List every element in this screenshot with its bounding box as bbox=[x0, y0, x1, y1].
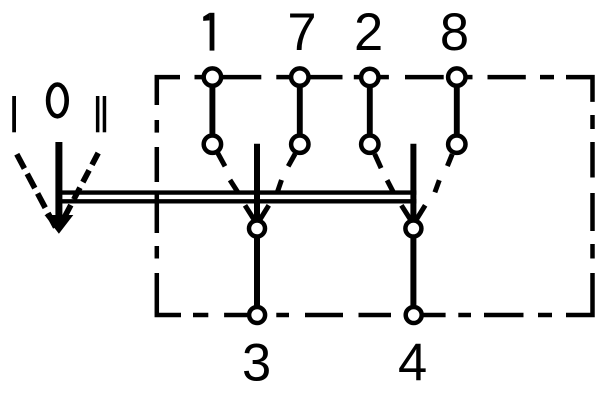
terminal 4 contact circle bbox=[406, 307, 422, 323]
terminal 1 wire bbox=[209, 79, 215, 143]
terminal 1 top contact circle bbox=[204, 68, 221, 85]
switch body outline, bottom edge (dash-dot) bbox=[157, 273, 552, 315]
position label I bbox=[12, 96, 16, 132]
terminal 8 wire bbox=[454, 79, 460, 143]
position label 0 bbox=[48, 85, 67, 117]
svg-text:7: 7 bbox=[287, 3, 316, 62]
lever shaft bbox=[55, 142, 62, 219]
actuator bar (double horizontal line) bbox=[62, 193, 417, 202]
svg-text:4: 4 bbox=[398, 333, 427, 392]
pole 4 pivot circle bbox=[405, 221, 421, 237]
terminal label 1 bbox=[203, 13, 214, 51]
pole 3 pivot circle bbox=[249, 221, 265, 237]
terminal 8 fixed contact circle bbox=[448, 136, 465, 153]
switch body outline, top edge (dash-dot) bbox=[157, 77, 593, 105]
switch body outline, right edge (dash-dot) bbox=[566, 115, 593, 315]
terminal 7 fixed contact circle bbox=[291, 136, 308, 153]
terminal 2 top contact circle bbox=[361, 69, 378, 86]
dashed contact line from terminal 8 to pole 4 bbox=[435, 154, 452, 192]
lever travel dashed line, position I bbox=[17, 154, 57, 229]
dashed contact line from terminal 2 to pole 4 bbox=[375, 154, 394, 192]
dashed contact line from terminal 7 to pole 3 bbox=[277, 154, 295, 192]
pole 4 contact fork bbox=[401, 205, 425, 219]
lever arrowhead bbox=[45, 215, 74, 234]
terminal 2 fixed contact circle bbox=[361, 136, 378, 153]
dashed contact line from terminal 1 to pole 3 bbox=[218, 153, 238, 192]
svg-text:2: 2 bbox=[354, 3, 383, 62]
terminal 8 top contact circle bbox=[448, 68, 465, 85]
pole 3 contact fork bbox=[245, 205, 269, 219]
switch body outline, left edge (dash-dot) bbox=[155, 120, 160, 259]
svg-text:8: 8 bbox=[440, 3, 469, 62]
terminal 2 wire bbox=[367, 79, 373, 143]
lever travel dashed line, position II bbox=[62, 153, 99, 223]
position label II bbox=[96, 96, 106, 132]
pole 4 wire bbox=[410, 144, 416, 315]
svg-text:3: 3 bbox=[242, 334, 271, 393]
terminal 3 contact circle bbox=[249, 307, 265, 323]
terminal 7 top contact circle bbox=[291, 68, 308, 85]
terminal 1 fixed contact circle bbox=[204, 136, 221, 153]
terminal 7 wire bbox=[297, 79, 303, 143]
pole 3 wire bbox=[254, 144, 260, 315]
